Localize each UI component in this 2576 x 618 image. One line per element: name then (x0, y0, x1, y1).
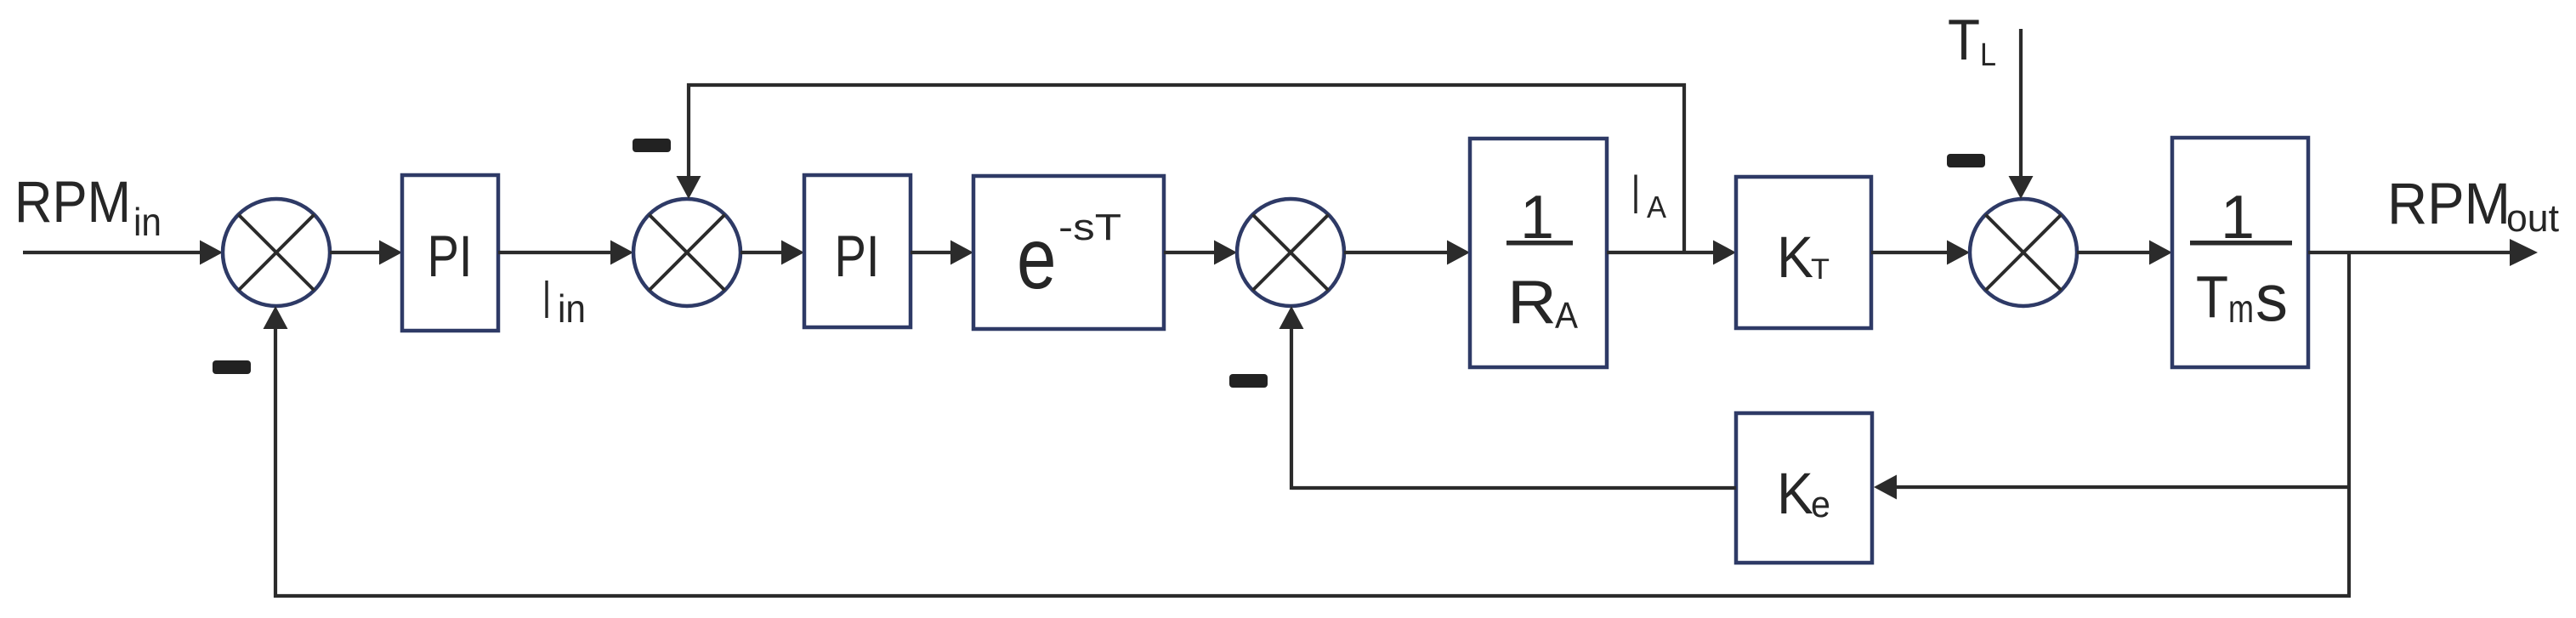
block PI2 (804, 175, 911, 327)
wire PI1 to S2 (498, 241, 633, 265)
svg-text:in: in (558, 286, 586, 331)
minus sign at S3 (1229, 374, 1268, 388)
svg-text:I: I (1631, 162, 1640, 225)
wire output junction vertical drop (2347, 252, 2351, 596)
svg-text:RPM: RPM (2387, 171, 2511, 236)
node I_in label (542, 269, 586, 331)
block e^-sT (delay) (973, 176, 1164, 329)
wire S4 to 1/Tms block (2077, 241, 2172, 265)
summing junction S1 (223, 199, 330, 306)
node IA label (1631, 162, 1666, 225)
summing junction S2 (633, 199, 740, 306)
svg-text:in: in (133, 200, 162, 244)
block 1/RA (1470, 139, 1607, 367)
svg-text:A: A (1555, 295, 1579, 337)
node RPM_in label (14, 169, 162, 244)
svg-text:T: T (2196, 264, 2228, 330)
wire delay block to S3 (1164, 241, 1237, 265)
minus sign at S1 (213, 360, 251, 374)
svg-text:K: K (1777, 461, 1813, 526)
svg-text:T: T (1948, 8, 1980, 72)
wire TL into S4 (2009, 29, 2034, 199)
svg-text:R: R (1507, 269, 1557, 337)
svg-text:m: m (2228, 286, 2254, 331)
wire S2 to PI2 (740, 241, 804, 265)
outer feedback wire from output to S1 (264, 306, 2352, 598)
node RPM_out label (2387, 171, 2559, 240)
summing junction S4 (1970, 199, 2077, 306)
wire S3 to 1/RA block (1344, 241, 1470, 265)
block 1/Tms (2172, 138, 2308, 367)
svg-text:K: K (1777, 224, 1813, 290)
svg-text:L: L (1980, 37, 1996, 73)
svg-text:e: e (1811, 484, 1830, 525)
svg-text:-sT: -sT (1058, 207, 1121, 248)
wire PI2 to delay block (911, 241, 973, 265)
wire input to S1 (23, 241, 223, 265)
wire S1 to PI1 (330, 241, 402, 265)
svg-text:s: s (2255, 260, 2288, 335)
svg-text:RPM: RPM (14, 169, 131, 235)
input TL label (1948, 8, 1996, 73)
svg-text:out: out (2506, 196, 2559, 240)
svg-text:PI: PI (428, 224, 473, 289)
wire output from 1/Tms (2308, 239, 2538, 266)
block KT (1736, 177, 1871, 328)
svg-text:A: A (1647, 190, 1666, 224)
block Ke (1736, 413, 1872, 563)
svg-text:e: e (1017, 210, 1057, 307)
minus sign at S2 (633, 139, 671, 152)
block PI1 (402, 175, 498, 331)
summing junction S3 (1237, 199, 1344, 306)
minus sign at S4 (1947, 154, 1985, 167)
feedback wire from output to Ke (1874, 475, 2349, 500)
wire 1/RA to KT with junction at IA tap (1607, 241, 1736, 265)
svg-text:PI: PI (835, 224, 880, 289)
wire KT to S4 (1871, 241, 1970, 265)
feedback wire from IA node to S2 (top loop) (677, 83, 1687, 252)
svg-text:T: T (1811, 253, 1830, 286)
svg-text:I: I (542, 269, 551, 330)
feedback wire Ke to S3 (1279, 306, 1737, 490)
